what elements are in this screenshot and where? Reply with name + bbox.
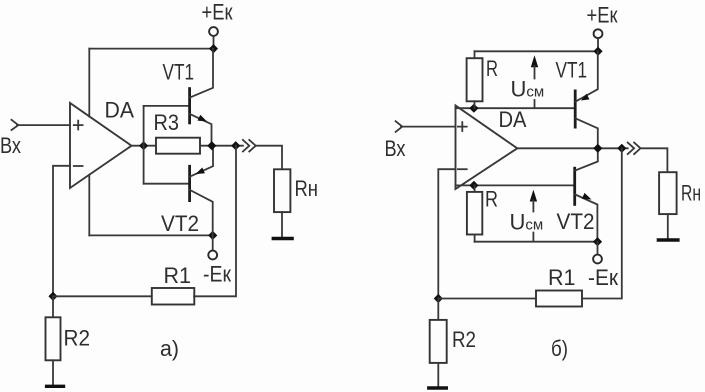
wire input to op-amp + (right) [401,126,456,128]
svg-text:VT1: VT1 [556,58,588,83]
resistor Rn (left) [274,169,290,212]
wire R2 to ground (right) [437,363,439,387]
offset arrow Uсм upper (right) [531,55,538,107]
wire top rail (right) [475,50,599,52]
svg-text:Вх: Вх [385,136,406,161]
wire node to R2 (right) [437,299,439,320]
wire VT2 base (left) [144,183,189,185]
node +Ek junction (right) [593,47,602,56]
node A op-amp output (left) [139,141,148,150]
op-amp plus pin mark (right) [458,122,467,131]
offset arrow Uсм lower (right) [530,190,537,241]
wire bottom rail (right) [475,241,598,243]
resistor R2 (left) [46,317,61,360]
op-amp plus pin mark (left) [74,121,83,130]
wire junction to R1 (left) [53,295,153,297]
svg-text:а): а) [160,336,179,361]
output chevrons (right) [628,143,641,155]
resistor R upper (right) [467,58,483,101]
terminal +Ek (right) [594,29,603,38]
wire VT1 base (left) [144,105,189,107]
output chevrons (left) [243,140,256,152]
wire base bracket vertical (left) [143,106,145,184]
svg-text:R2: R2 [452,327,476,352]
wire op-amp output to node A (left) [132,145,157,147]
svg-text:VT2: VT2 [557,209,595,234]
wire R1 to output tap (left) [194,146,236,297]
node feedback junction (left) [48,292,57,301]
wire output to Rn (right) [641,148,668,172]
svg-text:б): б) [551,336,568,361]
op-amp U-DA (left) triangle [70,103,132,188]
resistor R2 (right) [430,320,447,363]
wire input to op-amp + (left) [17,124,70,126]
node collectors junction (right) [593,144,602,153]
svg-text:+Ек: +Ек [202,0,233,25]
svg-text:DA: DA [499,107,527,132]
svg-text:+Ек: +Ек [587,3,618,28]
transistor VT1 (left, NPN) [190,49,213,146]
wire Rn to ground (left) [281,212,283,237]
node feedback junction (right) [434,294,443,303]
wire op-amp V- pin to bottom rail (left) [88,175,90,236]
node +Ek junction (left) [209,44,218,53]
svg-text:-Ек: -Ек [203,262,231,287]
node -Ek junction (left) [208,231,217,240]
node -Ek junction (right) [593,237,602,246]
terminal -Ek (right) [597,242,599,255]
node upper R junction (right) [469,104,478,113]
svg-text:-Ек: -Ек [588,265,618,290]
op-amp minus pin mark (right) [458,168,467,170]
resistor R1 (left) [152,288,195,305]
transistor VT1 (right, PNP) [575,51,598,148]
svg-text:Rн: Rн [295,176,319,201]
svg-text:R: R [486,56,498,81]
node feedback tap (left) [231,141,240,150]
op-amp minus pin mark (left) [74,165,83,167]
svg-text:R: R [485,187,498,212]
ground under Rn (left) [272,237,294,240]
wire Rn to ground (right) [667,214,669,238]
wire R upper leads (right) [474,51,476,108]
wire op-amp output to tap (right) [517,147,627,149]
input terminal arrow Вх (left) [12,120,19,130]
wire op-amp minus input feedback (right) [438,169,455,298]
wire R1 to output tap (right) [582,148,622,298]
transistor VT2 (right, NPN) [575,148,598,241]
wire junction to R1 (right) [438,298,536,300]
wire upper base line (right) [456,107,575,109]
resistor Rn (right) [659,172,677,214]
ground under R2 (left) [45,385,65,388]
terminal +Ek (left) [209,27,218,36]
svg-text:R1: R1 [548,265,576,290]
svg-text:VT2: VT2 [161,211,199,236]
wire lower base line (right) [456,184,575,186]
wire top rail (left) [89,48,213,50]
resistor R1 (right) [536,291,582,307]
svg-text:VT1: VT1 [163,60,195,85]
wire output to Rn (left) [256,146,282,170]
svg-text:R2: R2 [64,326,91,351]
svg-text:R1: R1 [164,263,192,288]
svg-text:DA: DA [105,98,135,123]
wire op-amp V+ pin to top rail (left) [88,49,90,117]
resistor R lower (right) [467,192,482,235]
input terminal arrow Вх (right) [396,121,403,132]
node lower R junction (right) [469,181,478,190]
wire node to R2 (left) [52,296,54,317]
op-amp U-DA (right) triangle [456,106,518,190]
ground under R2 (right) [427,386,448,389]
resistor R3 [156,138,200,154]
terminal -Ek (left) [212,235,214,250]
wire R2 to ground (left) [52,360,54,385]
node feedback tap (right) [617,144,626,153]
wire R lower leads (right) [474,185,476,241]
svg-text:R3: R3 [154,110,180,135]
transistor VT2 (left, PNP) [190,146,213,236]
wire bottom rail (left) [89,234,212,236]
ground under Rn (right) [657,238,680,241]
node B emitters junction (left) [207,141,216,150]
svg-text:Вх: Вх [0,133,21,158]
wire R3 to node B (left) [200,145,243,147]
svg-text:Rн: Rн [681,181,701,206]
wire op-amp minus input feedback (left) [53,166,70,296]
